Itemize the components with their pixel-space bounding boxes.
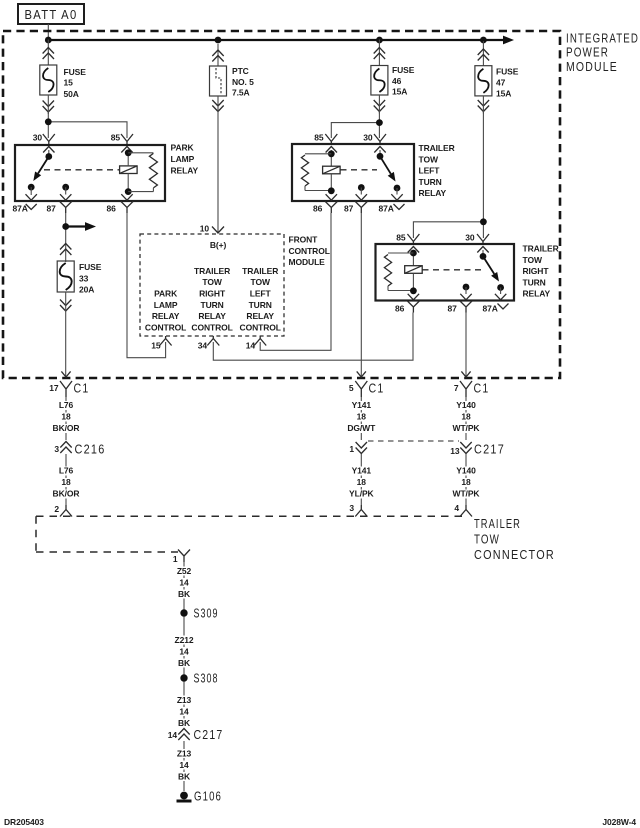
svg-text:NO. 5: NO. 5: [232, 77, 254, 87]
svg-text:85: 85: [396, 233, 406, 243]
svg-text:FUSE: FUSE: [64, 67, 87, 77]
svg-text:PARK: PARK: [154, 289, 178, 299]
svg-text:TRAILER: TRAILER: [242, 266, 278, 276]
svg-text:14: 14: [168, 730, 178, 740]
wire Z13 14 BK (lower): [183, 741, 185, 791]
svg-text:BATT A0: BATT A0: [25, 7, 78, 22]
wire right relay 87 down to C1 pin 7: [465, 313, 467, 378]
svg-text:TRAILER: TRAILER: [194, 266, 230, 276]
wire Y140 18 WT/PK (upper): [465, 397, 467, 440]
relay K3 switch 30-87A: [480, 250, 507, 300]
svg-text:TURN: TURN: [523, 277, 546, 287]
wire FCM pin 14 to left relay 86: [260, 213, 331, 350]
relay K2 bottom forks: [325, 202, 404, 214]
svg-text:85: 85: [314, 133, 324, 143]
svg-text:C1: C1: [74, 381, 90, 396]
splice S309: [180, 606, 218, 621]
svg-text:FUSE: FUSE: [496, 67, 519, 77]
relay K2 pin 87: [356, 184, 367, 200]
svg-text:86: 86: [107, 204, 117, 214]
svg-text:FUSE: FUSE: [392, 65, 415, 75]
wire park relay 86 to FCM pin 15: [127, 213, 166, 358]
svg-text:LEFT: LEFT: [419, 166, 441, 176]
fuse F15 50A: [40, 40, 57, 115]
svg-text:RELAY: RELAY: [152, 311, 180, 321]
svg-text:TOW: TOW: [202, 277, 222, 287]
fuse F46 label: [392, 65, 415, 96]
svg-text:WT/PK: WT/PK: [453, 489, 481, 499]
wire Y140 18 WT/PK (lower): [465, 454, 467, 505]
svg-text:POWER: POWER: [566, 45, 609, 60]
relay K2 name label: [419, 143, 455, 198]
svg-text:18: 18: [461, 477, 471, 487]
svg-text:13: 13: [450, 446, 460, 456]
svg-text:18: 18: [357, 412, 367, 422]
wire Y141 18 YL/PK: [360, 454, 362, 505]
wire fuse46 to trailer-left relay pins 85/30: [378, 112, 380, 139]
svg-text:RELAY: RELAY: [523, 289, 551, 299]
splice S308: [180, 671, 218, 686]
node bus/fuse46: [376, 37, 383, 44]
wire fuse 33 down to C1 pin 17: [65, 292, 67, 377]
relay K2 trailer tow left: pin forks: [325, 134, 386, 153]
bus wire B(+): [48, 39, 505, 41]
wire park relay 87 to fuse 33: [65, 213, 67, 262]
relay K3 bottom forks: [407, 301, 508, 313]
svg-text:CONNECTOR: CONNECTOR: [474, 547, 555, 562]
svg-text:50A: 50A: [64, 89, 79, 99]
svg-text:Y141: Y141: [352, 400, 372, 410]
svg-text:14: 14: [179, 647, 189, 657]
relay K3 pin 86 chevron: [408, 294, 419, 300]
relay K1 pin 87: [60, 184, 71, 200]
FCM bottom pin forks 15/34/14: [160, 336, 267, 346]
svg-text:Z13: Z13: [177, 695, 192, 705]
wire Z13 14 BK (upper): [183, 682, 185, 727]
svg-text:FRONT: FRONT: [289, 235, 319, 245]
svg-text:CONTROL: CONTROL: [145, 323, 186, 333]
svg-text:MODULE: MODULE: [289, 257, 326, 267]
relay K1 coil + resistor: [44, 149, 157, 195]
svg-text:TURN: TURN: [200, 300, 223, 310]
fuse F47 label: [496, 67, 519, 99]
node branch arrow: [62, 223, 69, 230]
svg-text:Y141: Y141: [352, 466, 372, 476]
relay K3 box: [376, 244, 515, 301]
svg-text:RIGHT: RIGHT: [199, 289, 226, 299]
svg-text:B(+): B(+): [210, 240, 227, 250]
fuse F33 label: [79, 262, 102, 295]
svg-text:RELAY: RELAY: [171, 166, 199, 176]
svg-text:15A: 15A: [392, 86, 407, 96]
svg-text:85: 85: [111, 133, 121, 143]
wire BATT A0 to bus: [47, 24, 49, 40]
svg-text:LAMP: LAMP: [154, 300, 178, 310]
svg-text:TOW: TOW: [251, 277, 271, 287]
svg-text:TOW: TOW: [419, 154, 439, 164]
relay K2 pin 86 chevron: [326, 194, 337, 200]
svg-text:INTEGRATED: INTEGRATED: [566, 31, 639, 46]
svg-text:CONTROL: CONTROL: [240, 323, 281, 333]
svg-text:BK: BK: [178, 589, 191, 599]
svg-text:Z212: Z212: [175, 635, 194, 645]
FCM column: trailer tow left turn relay control: [240, 266, 281, 333]
fuse F33 20A: [57, 244, 74, 312]
svg-text:C217: C217: [194, 727, 224, 742]
svg-text:30: 30: [465, 233, 475, 243]
svg-text:30: 30: [363, 133, 373, 143]
svg-text:87A: 87A: [483, 304, 498, 314]
svg-text:14: 14: [179, 578, 189, 588]
svg-text:C1: C1: [369, 381, 385, 396]
svg-text:14: 14: [179, 707, 189, 717]
svg-text:Z13: Z13: [177, 749, 192, 759]
svg-text:C1: C1: [474, 381, 490, 396]
FCM pin 10 fork: [212, 227, 224, 234]
svg-text:CONTROL: CONTROL: [289, 246, 330, 256]
wire Z52 14 BK: [183, 562, 185, 610]
svg-text:J028W-4: J028W-4: [602, 817, 636, 827]
fuse F46 15A: [371, 40, 388, 114]
trailer tow connector pin 1: [173, 550, 190, 565]
connector C216 pin 3: [54, 442, 105, 457]
svg-text:G106: G106: [194, 789, 222, 804]
relay K2 switch 30-87A: [377, 150, 403, 200]
svg-text:46: 46: [392, 76, 402, 86]
svg-text:Y140: Y140: [456, 466, 476, 476]
svg-text:1: 1: [349, 444, 354, 454]
svg-text:87: 87: [47, 204, 57, 214]
svg-text:MODULE: MODULE: [566, 59, 618, 74]
svg-text:TRAILER: TRAILER: [474, 516, 521, 531]
wire L76 18 BK/OR (upper): [65, 397, 67, 440]
wire fuse15 to park relay pins 30/85: [47, 112, 49, 122]
FCM column: trailer tow right turn relay control: [191, 266, 232, 333]
ground G106: [177, 789, 223, 804]
svg-text:TOW: TOW: [474, 532, 500, 547]
connector C217 pin 1: [349, 442, 367, 454]
svg-text:WT/PK: WT/PK: [453, 423, 481, 433]
node bus/PTC: [215, 37, 222, 44]
svg-text:BK: BK: [178, 772, 191, 782]
svg-text:34: 34: [198, 341, 208, 351]
svg-text:TOW: TOW: [523, 255, 543, 265]
trailer tow connector pin 3: [349, 503, 367, 517]
svg-text:PTC: PTC: [232, 66, 249, 76]
node fuse46/relay split: [376, 119, 383, 126]
svg-text:20A: 20A: [79, 285, 94, 295]
svg-text:17: 17: [49, 383, 59, 393]
relay K3 pin labels: [395, 233, 498, 314]
svg-text:87A: 87A: [13, 204, 28, 214]
trailer tow connector pin 4: [454, 503, 472, 517]
svg-text:Z52: Z52: [177, 566, 192, 576]
svg-text:DR205403: DR205403: [4, 817, 44, 827]
svg-text:CONTROL: CONTROL: [191, 323, 232, 333]
svg-text:RIGHT: RIGHT: [523, 266, 550, 276]
svg-text:47: 47: [496, 78, 506, 88]
relay K3 name label: [523, 244, 559, 299]
svg-text:2: 2: [54, 504, 59, 514]
svg-text:LAMP: LAMP: [171, 154, 195, 164]
trailer tow connector pin 2: [54, 504, 72, 517]
svg-text:TRAILER: TRAILER: [523, 244, 559, 254]
connector C1 pin 17: [49, 381, 89, 398]
fuse F15 label: [64, 67, 87, 99]
relay K1 pin 86 chevron: [121, 194, 132, 200]
svg-text:C217: C217: [474, 442, 505, 457]
svg-text:18: 18: [357, 477, 367, 487]
relay K2 coil + resistor: [301, 150, 377, 194]
connector C1 pin 7: [454, 381, 490, 398]
svg-text:18: 18: [461, 412, 471, 422]
svg-text:18: 18: [61, 412, 71, 422]
relay K1 bottom forks: [26, 202, 133, 214]
svg-text:86: 86: [395, 304, 405, 314]
svg-text:1: 1: [173, 554, 178, 564]
svg-text:L76: L76: [59, 466, 74, 476]
integrated power module dashed box: [3, 31, 560, 378]
wire L76 18 BK/OR (lower): [65, 454, 67, 505]
svg-text:L76: L76: [59, 400, 74, 410]
node bus/fuse47: [480, 37, 487, 44]
svg-text:BK: BK: [178, 718, 191, 728]
node fuse15/relay split: [45, 118, 52, 125]
svg-text:S309: S309: [194, 606, 219, 621]
svg-text:15: 15: [151, 341, 161, 351]
svg-text:RELAY: RELAY: [419, 188, 447, 198]
svg-text:LEFT: LEFT: [250, 289, 272, 299]
connector C1 pin 5: [349, 381, 385, 398]
PTC label: [232, 66, 254, 97]
svg-text:RELAY: RELAY: [246, 311, 274, 321]
wire Z212 14 BK: [183, 617, 185, 675]
svg-text:RELAY: RELAY: [198, 311, 226, 321]
trailer tow connector label: [474, 516, 555, 562]
node fuse47/relay split: [480, 218, 487, 225]
front control module dashed box: [140, 234, 284, 336]
svg-text:5: 5: [349, 383, 354, 393]
connector C217 link: [368, 440, 459, 442]
svg-text:14: 14: [246, 341, 256, 351]
relay K3 coil + resistor: [384, 250, 482, 295]
svg-text:3: 3: [54, 444, 59, 454]
svg-text:14: 14: [179, 760, 189, 770]
svg-text:S308: S308: [194, 671, 219, 686]
relay K2 box: [292, 144, 414, 201]
svg-text:7.5A: 7.5A: [232, 87, 250, 97]
svg-text:Y140: Y140: [456, 400, 476, 410]
relay K2 pin labels: [313, 133, 394, 214]
trailer tow connector dashed outline: [36, 516, 468, 552]
relay K1 park lamp: box: [15, 145, 165, 201]
svg-text:3: 3: [349, 503, 354, 513]
relay K3 pin 87: [460, 284, 471, 300]
svg-text:15: 15: [64, 78, 74, 88]
wire fuse47 to trailer-right relay pins 85/30: [482, 112, 484, 239]
svg-text:10: 10: [200, 224, 210, 234]
relay K3 trailer tow right: pin forks: [407, 234, 489, 253]
svg-text:7: 7: [454, 383, 459, 393]
PTC No.5 7.5A: [210, 44, 227, 232]
svg-text:87: 87: [344, 204, 354, 214]
svg-text:30: 30: [33, 133, 43, 143]
svg-text:DG/WT: DG/WT: [347, 423, 376, 433]
battery feed box BATT A0: [18, 4, 84, 24]
svg-text:87: 87: [448, 304, 458, 314]
relay K1 park lamp: pin forks: [43, 134, 133, 153]
svg-text:TURN: TURN: [419, 177, 442, 187]
svg-text:TRAILER: TRAILER: [419, 143, 455, 153]
svg-text:4: 4: [454, 503, 459, 513]
svg-text:PARK: PARK: [171, 143, 195, 153]
svg-text:87A: 87A: [379, 204, 394, 214]
svg-text:86: 86: [313, 204, 323, 214]
svg-text:BK/OR: BK/OR: [53, 489, 80, 499]
fuse F47 15A: [475, 41, 492, 114]
svg-text:15A: 15A: [496, 89, 511, 99]
wire FCM pin 34 to right relay 86: [213, 313, 413, 361]
svg-text:C216: C216: [75, 442, 106, 457]
node bus/fuse15: [45, 37, 52, 44]
connector C217 pin 13: [450, 442, 505, 457]
svg-text:BK/OR: BK/OR: [53, 423, 80, 433]
wire left relay 87 down to C1 pin 5: [360, 213, 362, 377]
svg-text:TURN: TURN: [249, 300, 272, 310]
FCM bottom pin labels: [151, 341, 255, 351]
svg-text:FUSE: FUSE: [79, 262, 102, 272]
svg-text:BK: BK: [178, 658, 191, 668]
svg-text:18: 18: [61, 477, 71, 487]
relay K1 name label: [171, 143, 199, 176]
wire Y141 18 DG/WT: [360, 397, 362, 440]
relay K1 pin labels: [13, 133, 121, 214]
relay K1 switch 30-87A: [26, 150, 53, 200]
FCM column: park lamp relay control: [145, 289, 186, 333]
svg-text:YL/PK: YL/PK: [349, 489, 374, 499]
FCM labels: [200, 224, 227, 251]
integrated power module label: [566, 31, 639, 74]
connector C217 pin 14: [168, 727, 224, 742]
svg-text:33: 33: [79, 273, 89, 283]
